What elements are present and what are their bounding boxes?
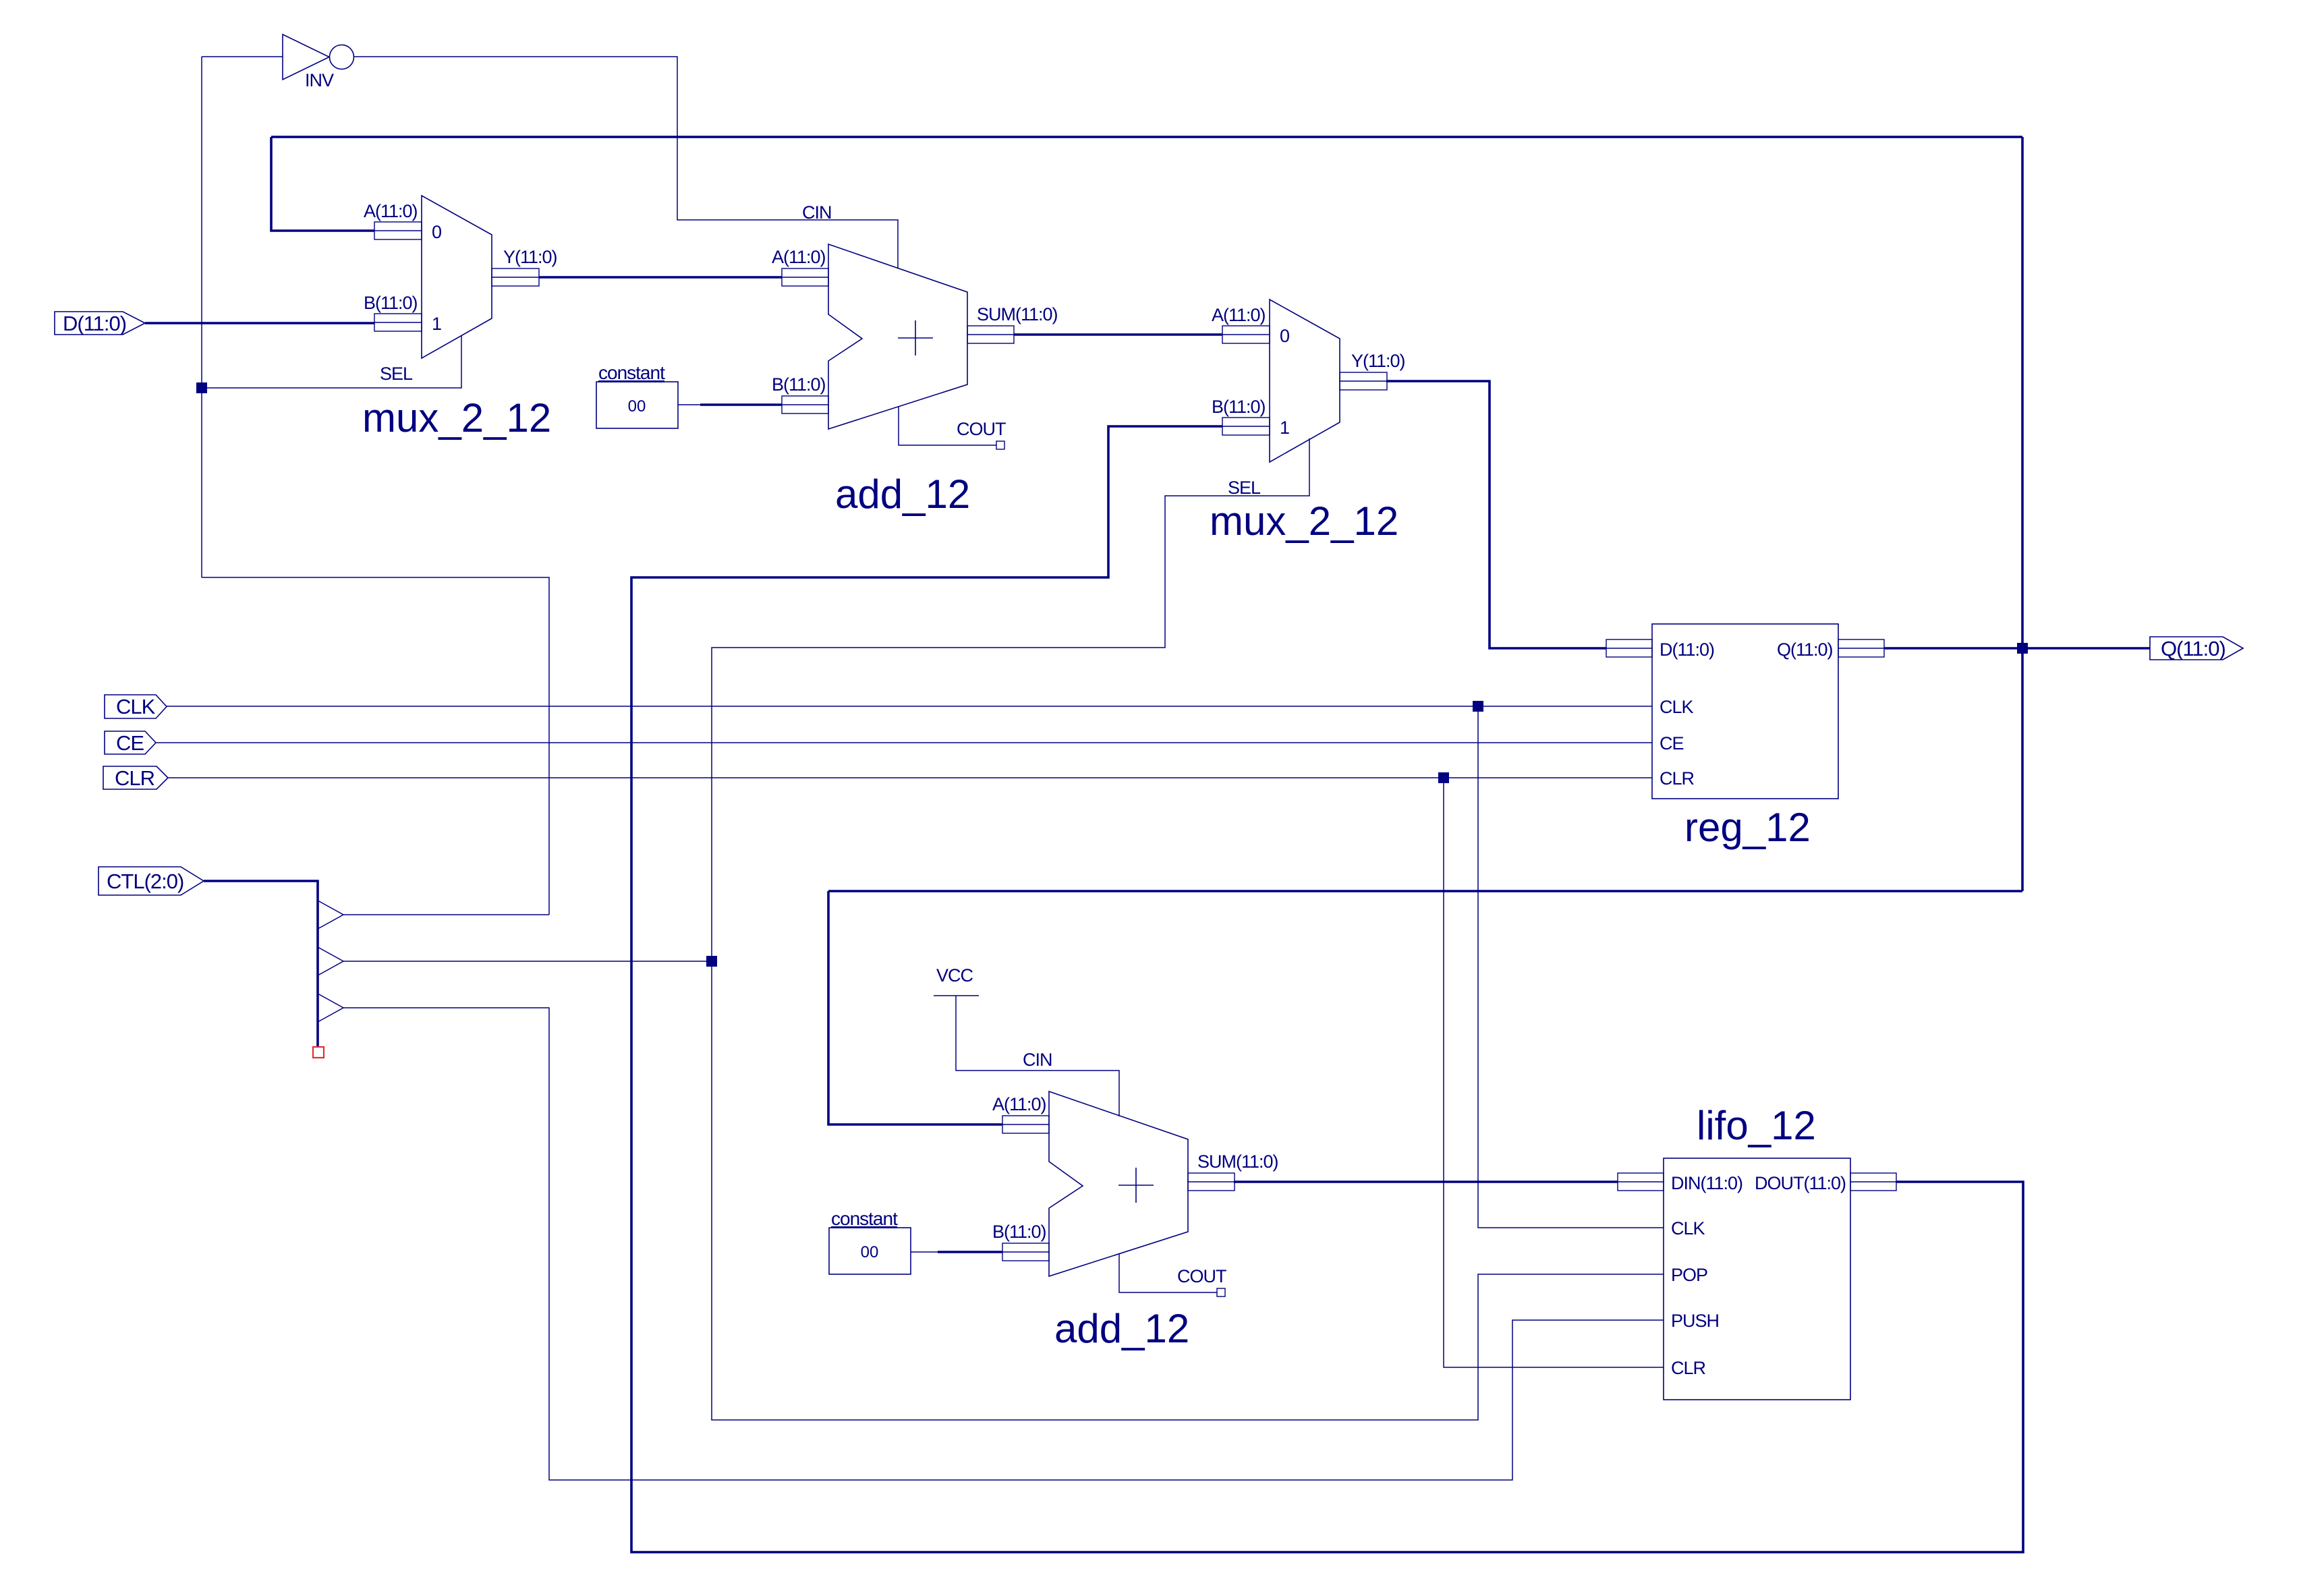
adder symbol add1 outline [828, 244, 967, 429]
add1 plus sign [898, 320, 933, 355]
svg-text:constant: constant [831, 1208, 898, 1229]
bus tap 1 on CTL bus [318, 901, 343, 929]
svg-text:A(11:0): A(11:0) [1212, 305, 1266, 325]
wire mux2 Y to reg_12 D [1386, 381, 1606, 648]
svg-text:B(11:0): B(11:0) [772, 374, 826, 395]
svg-text:VCC: VCC [936, 965, 973, 986]
svg-text:reg_12: reg_12 [1684, 805, 1811, 850]
open bus end marker (red square) on CTL bus [313, 1047, 324, 1058]
svg-text:B(11:0): B(11:0) [992, 1222, 1046, 1242]
wire into add2 A pin [828, 891, 1002, 1124]
wire vertical SEL/CTL0 net at x=299 [201, 57, 202, 577]
svg-text:B(11:0): B(11:0) [1212, 397, 1266, 417]
wire CLR riser to lifo CLR [1444, 778, 1664, 1367]
add1 pin A(11:0) [782, 268, 828, 286]
lifo_12 pin DIN(11:0) [1618, 1173, 1664, 1191]
svg-text:DIN(11:0): DIN(11:0) [1671, 1173, 1742, 1193]
input port D(11:0) [55, 312, 145, 335]
reg_12 pin Q(11:0) [1838, 639, 1884, 657]
svg-text:SUM(11:0): SUM(11:0) [1197, 1151, 1278, 1172]
svg-text:CLR: CLR [1660, 768, 1695, 789]
VCC bar [934, 995, 979, 996]
mux symbol mux1 outline [422, 196, 492, 358]
mux symbol mux2 outline [1270, 300, 1340, 462]
add2 COUT open-square terminal [1217, 1288, 1225, 1296]
svg-text:CTL(2:0): CTL(2:0) [107, 870, 183, 893]
svg-text:00: 00 [628, 397, 646, 416]
wire VCC to CIN of add2 [956, 996, 1119, 1116]
wire add2 SUM to lifo DIN [1234, 1180, 1618, 1183]
mux2 pin A(11:0) [1222, 326, 1270, 343]
wire bus tap 1 output [343, 914, 549, 915]
wire mux2 SEL to tap2 net [712, 438, 1309, 961]
svg-text:0: 0 [432, 222, 441, 242]
wire lifo DOUT loop to mux2 B [631, 426, 2023, 1552]
wire mux1 Y to add1 A [539, 276, 782, 279]
input port CLR [103, 766, 168, 790]
svg-text:A(11:0): A(11:0) [364, 201, 418, 221]
svg-text:Q(11:0): Q(11:0) [1777, 639, 1833, 660]
wire constant1 output stub [678, 404, 700, 405]
svg-text:lifo_12: lifo_12 [1697, 1103, 1816, 1148]
svg-text:CLR: CLR [115, 766, 154, 790]
mux1 pin B(11:0) [374, 314, 422, 331]
svg-text:B(11:0): B(11:0) [364, 293, 418, 313]
add2 pin A(11:0) [1002, 1116, 1049, 1133]
svg-text:CIN: CIN [1023, 1050, 1052, 1070]
wire Q feedback to add2 A horizontal [828, 890, 2022, 892]
svg-text:CE: CE [1660, 733, 1684, 753]
wire constant2 output stub [911, 1251, 938, 1253]
svg-text:CIN: CIN [802, 202, 832, 223]
svg-text:PUSH: PUSH [1671, 1311, 1719, 1331]
svg-text:mux_2_12: mux_2_12 [1210, 498, 1398, 544]
mux1 pin A(11:0) [374, 222, 422, 239]
input port CLK [105, 695, 167, 718]
input port CE [105, 731, 156, 755]
wire INV output to CIN of add_12 #1 [353, 57, 898, 268]
mux1 pin Y(11:0) [492, 268, 539, 286]
svg-text:Y(11:0): Y(11:0) [503, 247, 557, 267]
inverter INV triangle [283, 34, 329, 80]
add2 pin B(11:0) [1002, 1243, 1049, 1261]
svg-text:constant: constant [598, 362, 665, 383]
svg-text:add_12: add_12 [1054, 1306, 1189, 1351]
add1 pin SUM(11:0) [967, 326, 1014, 343]
wire CTL0 riser to bus tap 1 [202, 577, 549, 915]
svg-text:POP: POP [1671, 1265, 1707, 1285]
wire tap2 net to lifo POP [712, 961, 1664, 1420]
junction SEL net at (299,575) [196, 382, 207, 393]
wire bus tap 3 to lifo PUSH [343, 1008, 1664, 1480]
mux2 pin Y(11:0) [1340, 372, 1387, 390]
svg-text:CLK: CLK [1671, 1218, 1705, 1238]
reg_12 pin D(11:0) [1606, 639, 1652, 657]
wire bus tap 2 output [343, 961, 712, 962]
svg-text:add_12: add_12 [835, 472, 970, 517]
lifo_12 pin DOUT(11:0) [1850, 1173, 1896, 1191]
wire constant2 to add2 B [938, 1251, 1002, 1253]
wire reg_12 Q to Q(11:0) port [1884, 647, 2150, 650]
add1 COUT open-square terminal [996, 441, 1004, 449]
constant block constant2 box [829, 1228, 911, 1274]
wire add1 SUM to mux2 A [1014, 333, 1222, 336]
wire CLK net horizontal [167, 706, 1652, 707]
svg-text:A(11:0): A(11:0) [772, 247, 826, 267]
svg-text:SEL: SEL [1228, 478, 1261, 498]
svg-text:COUT: COUT [957, 419, 1006, 439]
svg-text:D(11:0): D(11:0) [1660, 639, 1714, 660]
bus tap 3 on CTL bus [318, 994, 343, 1022]
svg-text:0: 0 [1280, 326, 1289, 346]
mux2 pin B(11:0) [1222, 418, 1270, 435]
junction CLR net at (2140,1153) [1438, 772, 1449, 783]
wire CE net [156, 742, 1652, 743]
inverter INV bubble [330, 45, 354, 69]
wire Q feedback into mux1 A [271, 137, 374, 231]
wire CTL(2:0) bus [204, 881, 318, 1052]
svg-text:mux_2_12: mux_2_12 [362, 395, 551, 440]
svg-text:CLK: CLK [116, 695, 156, 718]
register reg_12 box [1652, 624, 1838, 799]
wire add1 COUT stub [899, 406, 996, 445]
wire Q feedback vertical at x=2998 [2021, 137, 2024, 891]
svg-text:D(11:0): D(11:0) [63, 312, 126, 335]
output port Q(11:0) [2150, 637, 2243, 660]
wire D(11:0) port to mux1 B [145, 322, 374, 324]
svg-text:Y(11:0): Y(11:0) [1351, 351, 1405, 371]
stack lifo_12 box [1664, 1158, 1850, 1400]
bus tap 2 on CTL bus [318, 947, 343, 975]
svg-text:SUM(11:0): SUM(11:0) [977, 304, 1058, 324]
svg-text:COUT: COUT [1177, 1266, 1226, 1286]
adder symbol add2 outline [1049, 1091, 1188, 1276]
wire Q feedback top horizontal [271, 136, 2022, 138]
svg-text:Q(11:0): Q(11:0) [2161, 637, 2225, 660]
constant block constant1 box [596, 382, 678, 428]
wire SEL of mux_2_12 #1 [202, 335, 461, 388]
add2 plus sign [1118, 1168, 1154, 1203]
svg-text:SEL: SEL [380, 364, 413, 384]
add2 pin SUM(11:0) [1188, 1173, 1235, 1191]
svg-text:CLK: CLK [1660, 697, 1694, 717]
junction Q net at (2998,961) [2017, 643, 2028, 654]
svg-text:1: 1 [1280, 418, 1289, 438]
wire add2 COUT stub [1119, 1253, 1217, 1292]
svg-text:INV: INV [305, 70, 334, 90]
svg-text:DOUT(11:0): DOUT(11:0) [1755, 1173, 1846, 1193]
svg-text:1: 1 [432, 314, 441, 334]
wire CLK riser to lifo CLK [1478, 706, 1664, 1228]
junction tap2 net at (1055,1425) [706, 956, 717, 967]
svg-text:A(11:0): A(11:0) [992, 1094, 1046, 1114]
svg-text:CE: CE [116, 731, 144, 755]
wire INV input from vertical [202, 56, 283, 57]
wire CLR net horizontal [168, 777, 1652, 778]
add1 pin B(11:0) [782, 396, 828, 414]
input port CTL(2:0) [98, 867, 204, 895]
svg-text:CLR: CLR [1671, 1358, 1706, 1378]
junction CLK net at (2191,1047) [1473, 701, 1483, 712]
svg-text:00: 00 [861, 1243, 879, 1261]
wire constant1 to add1 B [700, 403, 782, 406]
